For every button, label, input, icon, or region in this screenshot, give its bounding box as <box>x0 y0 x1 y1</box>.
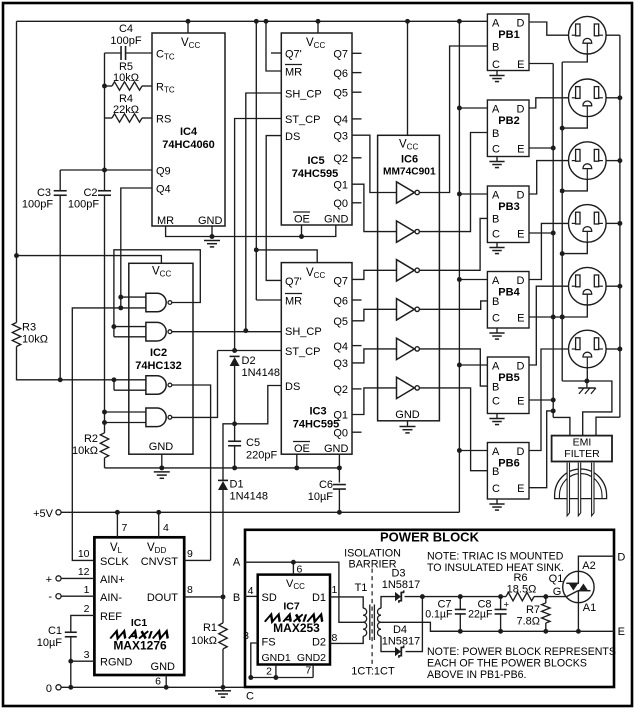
node PB5 E <box>551 398 556 403</box>
svg-text:OE: OE <box>294 443 310 455</box>
svg-text:D: D <box>517 18 525 30</box>
svg-text:PB4: PB4 <box>498 287 520 299</box>
label terminal E out <box>618 626 625 638</box>
svg-text:D: D <box>517 446 525 458</box>
node Q1 A1 E <box>576 629 581 634</box>
label C7 <box>425 599 453 621</box>
svg-text:Q7': Q7' <box>285 49 302 61</box>
svg-text:A: A <box>233 557 241 569</box>
logo MAXIM IC7 <box>265 614 325 621</box>
label IC1 <box>131 617 148 629</box>
pin IC5 Q6 <box>333 68 348 80</box>
pin IC3 Q5 <box>333 316 348 328</box>
pin IC4 Q9 <box>156 166 171 178</box>
node C8 bottom <box>498 629 503 634</box>
svg-text:D4: D4 <box>393 624 407 636</box>
svg-text:B: B <box>492 466 499 478</box>
wire VCC top rail <box>17 20 488 22</box>
wire PB2 A <box>459 107 487 109</box>
pin IC1 GND <box>151 661 176 673</box>
pin IC7 FS <box>262 637 276 649</box>
pin IC4 RTC <box>156 82 175 95</box>
label IC3 Vcc <box>306 267 325 280</box>
pin IC5 Q5 <box>333 88 348 100</box>
note power block <box>427 646 616 681</box>
pin IC3 Q2 <box>333 384 348 396</box>
wire ST_CP link <box>218 350 282 352</box>
node outlet2 neutral rail <box>560 126 565 131</box>
node AC ground junction <box>584 379 589 384</box>
label Q1 G <box>553 586 562 598</box>
node C5 bottom <box>232 465 237 470</box>
pin IC5 Q7b <box>285 49 302 61</box>
svg-text:GND: GND <box>324 214 349 226</box>
wire PB5 C gnd stub <box>496 414 498 419</box>
capacitor C8 <box>495 597 507 632</box>
pin IC7 GND2 <box>297 652 326 664</box>
outlet receptacle 6 <box>569 330 607 368</box>
wire Q1 A1 <box>577 603 579 632</box>
wire IC5 Q2 stub <box>352 157 362 159</box>
wire IC3 Q3 to inv5 <box>352 349 397 363</box>
label pin6 IC7 <box>297 564 303 576</box>
wire PB4 A <box>459 279 487 281</box>
pin IC3 SH_CP <box>285 326 322 338</box>
svg-text:IC3: IC3 <box>309 406 326 418</box>
wire IC3 MR riser <box>255 21 257 300</box>
pin IC3 Q3 <box>333 358 348 370</box>
svg-text:RS: RS <box>156 114 171 126</box>
wire gate2 inputs <box>114 327 146 337</box>
svg-text:7: 7 <box>122 522 128 534</box>
wire PB6 A <box>459 450 487 452</box>
capacitor C6 <box>333 485 346 513</box>
terminal 0V <box>46 683 61 695</box>
wire C rail <box>251 677 313 679</box>
node Q9-C2 <box>102 168 107 173</box>
label IC1 VDD <box>147 542 166 555</box>
outlet receptacle 5 <box>569 267 607 305</box>
pin IC7 SD <box>262 592 277 604</box>
svg-text:C1: C1 <box>48 625 62 637</box>
svg-text:A1: A1 <box>583 602 596 614</box>
node C7 top <box>458 594 463 599</box>
svg-text:10µF: 10µF <box>37 637 63 649</box>
wire outlet3 neutral <box>562 180 587 191</box>
svg-text:Q0: Q0 <box>333 428 348 440</box>
wire IC5 Q3 to inv1 <box>352 135 397 192</box>
node PB2 A <box>457 106 462 111</box>
svg-text:+: + <box>46 574 52 586</box>
svg-text:SH_CP: SH_CP <box>285 326 322 338</box>
wire gate2 out SH_CP <box>172 331 281 333</box>
label PB3 <box>498 201 519 213</box>
svg-text:1N5817: 1N5817 <box>382 636 421 648</box>
pin IC1 RGND <box>100 657 132 669</box>
svg-text:10kΩ: 10kΩ <box>191 635 217 647</box>
wire IC6 Vcc pin <box>407 21 409 135</box>
svg-text:Q1: Q1 <box>333 410 348 422</box>
pin IC3 Q0 <box>333 428 348 440</box>
label D1 <box>230 479 269 503</box>
svg-text:2: 2 <box>84 603 90 615</box>
pin IC5 DS <box>285 131 300 143</box>
outlet receptacle 1 <box>569 16 607 54</box>
svg-text:8: 8 <box>332 632 338 644</box>
wire IC3 Q2 stub <box>352 388 362 390</box>
pin IC4 GND <box>198 215 223 227</box>
pin PB6 B <box>492 466 499 478</box>
wire AIN- input <box>61 595 94 597</box>
wire IC3 GND pin <box>338 454 340 482</box>
pin IC1 DOUT <box>147 592 178 604</box>
svg-text:R7: R7 <box>526 604 540 616</box>
wire PB4 D to outlet <box>529 223 568 279</box>
svg-text:1N4148: 1N4148 <box>230 491 269 503</box>
svg-text:C5: C5 <box>246 437 260 449</box>
wire neutral rail <box>561 62 563 381</box>
label Q1 <box>549 573 564 585</box>
pin IC3 Q4 <box>333 341 348 353</box>
svg-text:4: 4 <box>248 585 254 597</box>
pin PB3 A <box>492 190 500 202</box>
label PB5 <box>498 372 519 384</box>
svg-text:10kΩ: 10kΩ <box>72 445 98 457</box>
label pin6 <box>155 676 161 688</box>
svg-text:E: E <box>618 626 625 638</box>
svg-text:E: E <box>517 59 524 71</box>
wire T1 sec bottom to D4 <box>381 636 395 651</box>
node VCC-IC2 junction <box>14 253 19 258</box>
label C3 <box>22 187 53 211</box>
note triac <box>427 551 564 575</box>
wire PB6 D to outlet <box>529 349 568 451</box>
svg-text:A: A <box>492 18 500 30</box>
svg-text:IC4: IC4 <box>180 126 198 138</box>
wire outlet4 neutral <box>562 243 587 254</box>
AC plug body <box>555 469 607 499</box>
label pin2 <box>84 603 90 615</box>
svg-text:EACH OF THE POWER BLOCKS: EACH OF THE POWER BLOCKS <box>427 658 587 670</box>
svg-text:C3: C3 <box>37 187 51 199</box>
label C4 <box>110 23 141 47</box>
AC plug prong ground <box>592 463 594 516</box>
node outlet4 hot rail <box>617 221 622 226</box>
wire A-rail vertical <box>458 21 460 512</box>
pin IC3 Q1 <box>333 410 348 422</box>
svg-text:A2: A2 <box>582 560 595 572</box>
node IC3 GND <box>337 465 342 470</box>
pin IC7 D2 <box>312 637 326 649</box>
pin PB1 A <box>492 18 500 30</box>
pin IC5 ST_CP <box>285 114 320 126</box>
svg-text:GND1: GND1 <box>262 652 291 664</box>
label ISOLATION BARRIER <box>344 548 401 571</box>
node D3-D4 junction <box>420 594 425 599</box>
svg-text:Q6: Q6 <box>333 296 348 308</box>
svg-text:1N4148: 1N4148 <box>242 367 281 379</box>
wire T1 sec top to D3 <box>381 597 395 609</box>
inverter IC6-c <box>397 260 420 281</box>
IC U-IC6 box MM74C901 <box>378 135 440 421</box>
pin PB5 E <box>517 395 524 407</box>
svg-text:AIN-: AIN- <box>100 592 122 604</box>
svg-text:3: 3 <box>243 630 249 642</box>
wire IC3 Q5 to inv4 <box>352 309 397 321</box>
node 0V-C1 <box>68 685 73 690</box>
wire IC6 GND pin <box>407 421 409 427</box>
svg-text:IC6: IC6 <box>401 154 418 166</box>
wire neutral to AC gnd <box>562 380 587 382</box>
capacitor C1 <box>65 632 77 687</box>
svg-text:12: 12 <box>78 566 90 578</box>
wire PB1 E <box>529 63 553 65</box>
svg-text:Q4: Q4 <box>333 114 348 126</box>
label PB4 <box>498 287 520 299</box>
pin PB4 E <box>517 312 524 324</box>
svg-text:T1: T1 <box>355 582 368 594</box>
label MAX1276 <box>113 639 167 653</box>
wire outlet6 hot <box>606 348 620 350</box>
node PB5 A <box>457 363 462 368</box>
label IC5 <box>292 155 338 180</box>
svg-text:MR: MR <box>285 67 302 79</box>
pin IC5 Q2 <box>333 153 348 165</box>
capacitor C3 <box>54 170 67 380</box>
label IC7 <box>283 601 300 613</box>
wire PB5 A <box>459 364 487 366</box>
svg-text:10: 10 <box>78 548 90 560</box>
gate IC2a NAND <box>146 293 172 312</box>
svg-text:Q5: Q5 <box>333 88 348 100</box>
node C8 top <box>498 594 503 599</box>
svg-text:E: E <box>517 143 524 155</box>
wire VCC to IC2 <box>17 256 162 264</box>
wire IC7 D2 to T1 <box>330 636 363 643</box>
wire IC3 Q0 stub <box>352 431 362 433</box>
svg-text:B: B <box>492 214 499 226</box>
terminal + input <box>46 574 62 586</box>
AC plug prong hot <box>567 463 569 516</box>
wire D3 out <box>405 596 423 598</box>
svg-text:Q1: Q1 <box>549 573 564 585</box>
wire IC4 Q4 <box>121 188 152 292</box>
node IC1 GND <box>164 685 169 690</box>
label Q1 A2 <box>582 560 595 572</box>
pin IC5 SH_CP <box>285 89 322 101</box>
node PB4 E rail2 <box>560 315 565 320</box>
wire gate4 inputs <box>105 412 146 423</box>
node R7 bottom <box>543 629 548 634</box>
pin IC3 Q7 <box>333 276 348 288</box>
pin PB5 A <box>492 361 500 373</box>
pin IC3 GND <box>324 443 349 455</box>
capacitor C4 <box>105 46 153 60</box>
svg-text:C6: C6 <box>319 479 333 491</box>
wire inv4 out to PB4 B <box>420 301 488 309</box>
node IC1 VL <box>115 510 120 515</box>
ground PB2 <box>489 162 504 168</box>
pin PB6 E <box>517 483 524 495</box>
label pin2 IC7 <box>266 666 272 678</box>
svg-text:GND: GND <box>324 443 349 455</box>
outlet receptacle 3 <box>569 142 607 180</box>
wire IC7 Vcc pin <box>292 562 294 574</box>
label R4 <box>113 93 139 116</box>
node C6 bottom <box>337 510 342 515</box>
svg-text:B: B <box>492 381 499 393</box>
pin PB1 B <box>492 41 499 53</box>
svg-text:Q2: Q2 <box>333 384 348 396</box>
node IC3 OE gnd <box>294 465 299 470</box>
capacitor C5 <box>228 424 241 468</box>
label pin10 <box>78 548 90 560</box>
label pin4 IC7 <box>248 585 254 597</box>
svg-text:A: A <box>492 361 500 373</box>
wire PB6 C gnd stub <box>496 499 498 504</box>
wire IC4 Vcc pin <box>187 21 189 33</box>
label PB1 <box>498 29 519 41</box>
pin PB1 C <box>492 59 500 71</box>
wire AIN+ input <box>61 577 94 579</box>
svg-text:D: D <box>517 275 525 287</box>
node outlet3 hot rail <box>617 158 622 163</box>
svg-text:100pF: 100pF <box>68 199 99 211</box>
wire E rail bottom <box>430 630 614 632</box>
svg-text:Q3: Q3 <box>333 131 348 143</box>
label R7 <box>516 604 540 628</box>
pin IC5 Q0 <box>333 198 348 210</box>
svg-text:74HC4060: 74HC4060 <box>162 139 215 151</box>
svg-text:D1: D1 <box>230 479 244 491</box>
wire gate4 out ST_CP riser <box>172 351 218 418</box>
pin IC1 AIN+ <box>100 574 125 586</box>
pin PB3 D <box>517 190 525 202</box>
wire T1 primary center tap <box>293 562 363 622</box>
gate IC2d NAND <box>146 408 172 427</box>
pin IC5 Q3 <box>333 131 348 143</box>
svg-text:B: B <box>233 592 240 604</box>
svg-text:D: D <box>617 552 625 564</box>
svg-text:ST_CP: ST_CP <box>285 346 320 358</box>
pin PB3 C <box>492 228 500 240</box>
svg-text:PB6: PB6 <box>498 458 519 470</box>
svg-text:3: 3 <box>84 649 90 661</box>
pin IC7 D1 <box>312 592 326 604</box>
svg-text:0: 0 <box>46 683 52 695</box>
gate IC2b NAND <box>146 322 172 341</box>
node R5 left <box>102 84 107 89</box>
inverter IC6-a <box>397 182 420 203</box>
pin IC3 MR <box>285 294 302 308</box>
label pin3 <box>84 649 90 661</box>
wire VCC left rail <box>16 21 18 322</box>
wire DS to D1 <box>223 424 235 481</box>
pin PB4 D <box>517 275 525 287</box>
svg-text:Q4: Q4 <box>156 184 171 196</box>
wire IC5 Q4 stub <box>352 118 362 120</box>
wire +5V rail <box>61 511 459 513</box>
svg-text:BARRIER: BARRIER <box>349 559 397 571</box>
wire R6 to gate <box>534 596 567 598</box>
svg-text:FILTER: FILTER <box>564 448 600 460</box>
svg-text:GND: GND <box>395 409 420 421</box>
svg-text:CNVST: CNVST <box>141 556 179 568</box>
capacitor C2 <box>98 191 111 434</box>
node outlet6 hot rail <box>617 347 622 352</box>
label R6 <box>507 572 537 596</box>
node IC1 VDD <box>156 510 161 515</box>
svg-text:SH_CP: SH_CP <box>285 89 322 101</box>
svg-text:C: C <box>246 691 254 703</box>
node FS C rail <box>248 675 253 680</box>
wire IC5 SH_CP <box>246 93 281 331</box>
wire PB4 C gnd stub <box>496 328 498 333</box>
svg-text:ABOVE IN PB1-PB6.: ABOVE IN PB1-PB6. <box>427 669 527 681</box>
wire IC4-IC5 ground bus <box>166 225 336 237</box>
svg-text:MM74C901: MM74C901 <box>383 167 436 178</box>
pin IC5 GND <box>324 214 349 226</box>
wire PB2 D to outlet <box>529 98 568 108</box>
wire Q1 A2 to D <box>578 556 614 571</box>
node outlet5 neutral rail <box>560 315 565 320</box>
label IC5 Vcc <box>306 37 325 50</box>
svg-text:Q7: Q7 <box>333 276 348 288</box>
label pin9 <box>187 548 193 560</box>
wire SCLK riser <box>72 308 121 561</box>
pin PB5 D <box>517 361 525 373</box>
wire IC5 MR to VCC <box>266 21 281 71</box>
label T1 <box>355 582 368 594</box>
wire PB3 E <box>529 232 553 234</box>
wire inv5 out to PB5 B <box>420 349 488 386</box>
transistor Q1 triac <box>563 571 594 602</box>
wire IC1 CNVST <box>184 559 210 561</box>
svg-text:74HC595: 74HC595 <box>293 419 339 431</box>
POWER BLOCK box <box>245 530 614 687</box>
svg-text:EMI: EMI <box>573 437 592 449</box>
svg-text:A: A <box>492 446 500 458</box>
svg-text:G: G <box>553 586 562 598</box>
node IC3 Vcc tap <box>254 247 259 252</box>
wire inv6 out to PB6 B <box>420 388 488 471</box>
wire IC3 Q7 to inv3 <box>352 270 397 279</box>
node A-rail top <box>457 19 462 24</box>
pin IC5 MR <box>285 65 302 79</box>
node outlet2 hot rail <box>617 95 622 100</box>
svg-text:MAX1276: MAX1276 <box>113 639 167 653</box>
resistor R6 <box>506 592 534 600</box>
label R3 <box>22 322 48 346</box>
label pin1 IC7 <box>332 584 338 596</box>
svg-text:0.1µF: 0.1µF <box>425 609 453 621</box>
label IC6 Vcc <box>399 139 418 152</box>
wire A input <box>245 561 293 563</box>
svg-text:R3: R3 <box>22 322 36 334</box>
node IC6 Vcc <box>405 19 410 24</box>
label D2 <box>242 355 281 379</box>
ground PB6 <box>489 504 504 510</box>
wire IC3 DS <box>235 386 282 424</box>
AC plug prong neutral <box>578 463 580 516</box>
node outlet5 hot rail <box>617 284 622 289</box>
node PB3 A <box>457 192 462 197</box>
svg-text:100pF: 100pF <box>22 199 53 211</box>
svg-text:1: 1 <box>84 584 90 596</box>
wire IC3 Q4 stub <box>352 345 362 347</box>
svg-text:Q3: Q3 <box>333 358 348 370</box>
svg-text:1CT:1CT: 1CT:1CT <box>351 666 395 678</box>
